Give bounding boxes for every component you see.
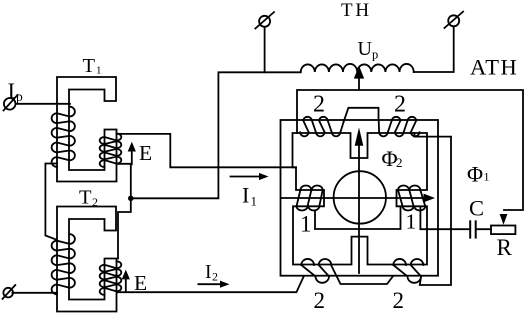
svg-text:I: I [242,183,249,208]
svg-text:T: T [79,187,92,209]
svg-text:p: p [372,48,378,62]
wire capacitor to resistor [477,228,492,230]
svg-text:T: T [83,55,96,77]
wire Ip terminal to T1 primary [16,103,71,105]
arrow I1 [231,173,269,180]
svg-text:Φ: Φ [467,162,483,187]
svg-text:I: I [8,78,16,103]
svg-text:1: 1 [300,212,312,237]
transformer T1 core [57,77,117,182]
arrow rheostat slider [500,214,508,225]
svg-text:2: 2 [212,270,218,284]
wire I2: T2 secondary bottom to block winding 2 bottom-left [117,276,304,292]
svg-text:2: 2 [92,195,98,209]
arrow Up tap [354,66,364,90]
relay inner core with poles [293,133,428,265]
coil 1 right pole [398,186,425,211]
transformer T2 secondary winding [100,261,122,295]
wire winding 1 right to capacitor [420,207,468,229]
wire link winding 2 top coils [344,108,379,122]
wire T1 primary bottom to T2 primary top [45,164,57,240]
svg-text:R: R [497,235,513,260]
svg-text:p: p [16,89,23,104]
relay outer frame [281,120,439,276]
wire TH right terminal down to coil [414,27,454,73]
svg-text:2: 2 [314,288,326,313]
svg-text:1: 1 [406,210,417,234]
svg-text:2: 2 [394,92,406,118]
transformer T2 core [57,207,117,312]
svg-text:E: E [134,271,147,295]
axis horizontal with flux arrow F1 [281,194,435,203]
transformer T1 primary winding [52,107,75,167]
coil 2 bottom-left [301,259,331,283]
wire bottom-left terminal to T2 primary bottom [12,292,57,294]
axis vertical with flux arrow F2 [355,128,364,274]
wire A: T1 secondary top to block winding 1 left [117,134,297,167]
terminal TH left [255,12,274,28]
coil 2 bottom-right [393,259,423,283]
wire link winding 2 bottom coils [331,266,393,285]
svg-text:E: E [139,141,152,165]
terminal bottom-left [3,285,16,299]
svg-text:1: 1 [96,65,102,77]
svg-text:U: U [358,38,373,60]
wire linking winding 1 coils under disc [315,207,401,230]
svg-text:ATH: ATH [470,55,518,80]
arrow E of T2 [122,270,130,291]
coil 2 top-left [300,117,344,137]
wire TH left terminal down to bus [264,27,266,72]
svg-text:1: 1 [484,170,490,184]
transformer T2 primary winding [52,234,75,294]
terminal TH right [444,12,463,28]
capacitor C [470,221,476,237]
wire winding 2 right side series link [415,133,452,285]
coil 1 left pole [297,186,323,211]
svg-text:2: 2 [393,288,405,313]
wire B: junction to TH coil [131,72,301,198]
arrow E of T1 [128,142,136,165]
transformer T1 secondary winding [100,134,122,168]
wire tap to winding 2 and to R slider [297,90,523,210]
svg-text:I: I [205,262,212,283]
svg-text:2: 2 [313,92,325,118]
svg-text:2: 2 [396,155,403,170]
svg-text:TH: TH [341,0,372,21]
inductor TH/ATH winding [301,64,414,72]
terminal Ip input [4,95,18,111]
rotor disc [334,171,386,223]
wire: T1 secondary bottom to junction and T2 secondary top [117,164,131,259]
svg-text:1: 1 [251,194,258,209]
node junction of secondaries [128,196,134,202]
resistor R [491,226,515,235]
coil 2 top-right [379,117,420,137]
svg-text:C: C [469,196,484,221]
arrow I2 [198,281,229,288]
